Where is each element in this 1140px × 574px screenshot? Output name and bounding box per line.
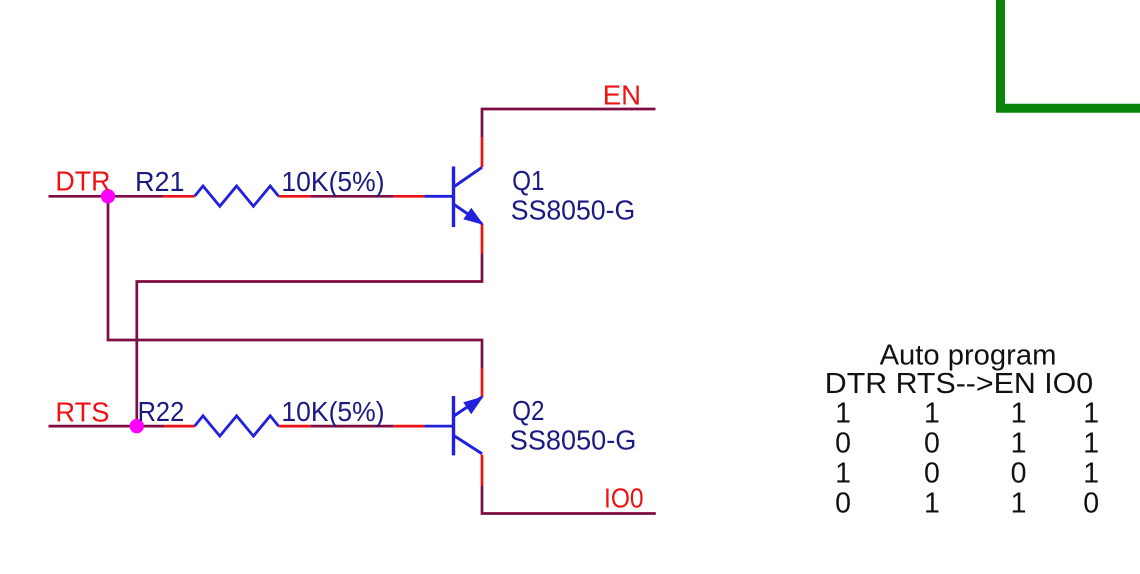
svg-text:1: 1 [924,488,940,520]
svg-text:1: 1 [1011,488,1027,520]
wire R21 to Q1 base [310,195,393,198]
pin Q2 emitter [481,369,484,398]
junction RTS [130,419,144,433]
wire DTR junction to Q2 emitter [108,196,482,368]
svg-text:1: 1 [924,398,940,430]
pin Q1 emitter [481,224,484,254]
transistor Q1 [424,167,482,228]
svg-text:Q1: Q1 [512,165,544,196]
svg-text:SS8050-G: SS8050-G [510,425,637,456]
truth table row 3 [835,457,1099,489]
sheet border (green corner) [1001,0,1140,108]
svg-text:Auto program: Auto program [880,339,1057,371]
resistor R22 [195,416,279,436]
svg-text:1: 1 [1083,428,1099,460]
transistor Q2 [424,396,482,455]
pin Q1 collector [481,137,484,167]
pin R22 left [164,425,195,428]
svg-text:0: 0 [924,457,940,489]
svg-text:Q2: Q2 [512,395,544,426]
truth table row 1 [835,398,1099,430]
truth table row 4 [835,488,1099,520]
svg-text:R22: R22 [138,396,185,427]
svg-text:1: 1 [835,457,851,489]
pin Q2 collector [481,455,484,486]
svg-text:DTR RTS-->EN IO0: DTR RTS-->EN IO0 [825,368,1093,400]
pin Q2 base [394,425,425,428]
wire DTR horizontal [49,195,164,198]
pin R22 right [279,425,311,428]
svg-text:1: 1 [1083,457,1099,489]
wire Q1 emitter to RTS junction [137,254,482,427]
junction DTR [101,189,115,203]
svg-text:0: 0 [835,488,851,520]
wire EN net [482,109,656,137]
pin R21 right [279,195,311,198]
svg-text:0: 0 [835,428,851,460]
wire R22 to Q2 base [310,425,393,428]
svg-text:0: 0 [924,428,940,460]
svg-text:IO0: IO0 [604,482,644,513]
wire RTS horizontal [49,425,165,428]
svg-text:DTR: DTR [55,166,110,197]
svg-text:10K(5%): 10K(5%) [281,166,384,197]
svg-text:10K(5%): 10K(5%) [281,396,384,427]
pin R21 left [163,195,195,198]
svg-text:1: 1 [835,398,851,430]
svg-text:EN: EN [603,79,641,110]
svg-text:0: 0 [1083,488,1099,520]
pin Q1 base [394,195,425,198]
svg-text:1: 1 [1011,398,1027,430]
resistor R21 [195,186,279,206]
svg-text:1: 1 [1083,398,1099,430]
svg-text:R21: R21 [135,166,185,197]
wire IO0 net [482,485,656,513]
svg-text:RTS: RTS [55,397,109,428]
truth table row 2 [835,428,1099,460]
svg-text:0: 0 [1011,457,1027,489]
svg-text:SS8050-G: SS8050-G [511,195,635,226]
svg-text:1: 1 [1011,428,1027,460]
